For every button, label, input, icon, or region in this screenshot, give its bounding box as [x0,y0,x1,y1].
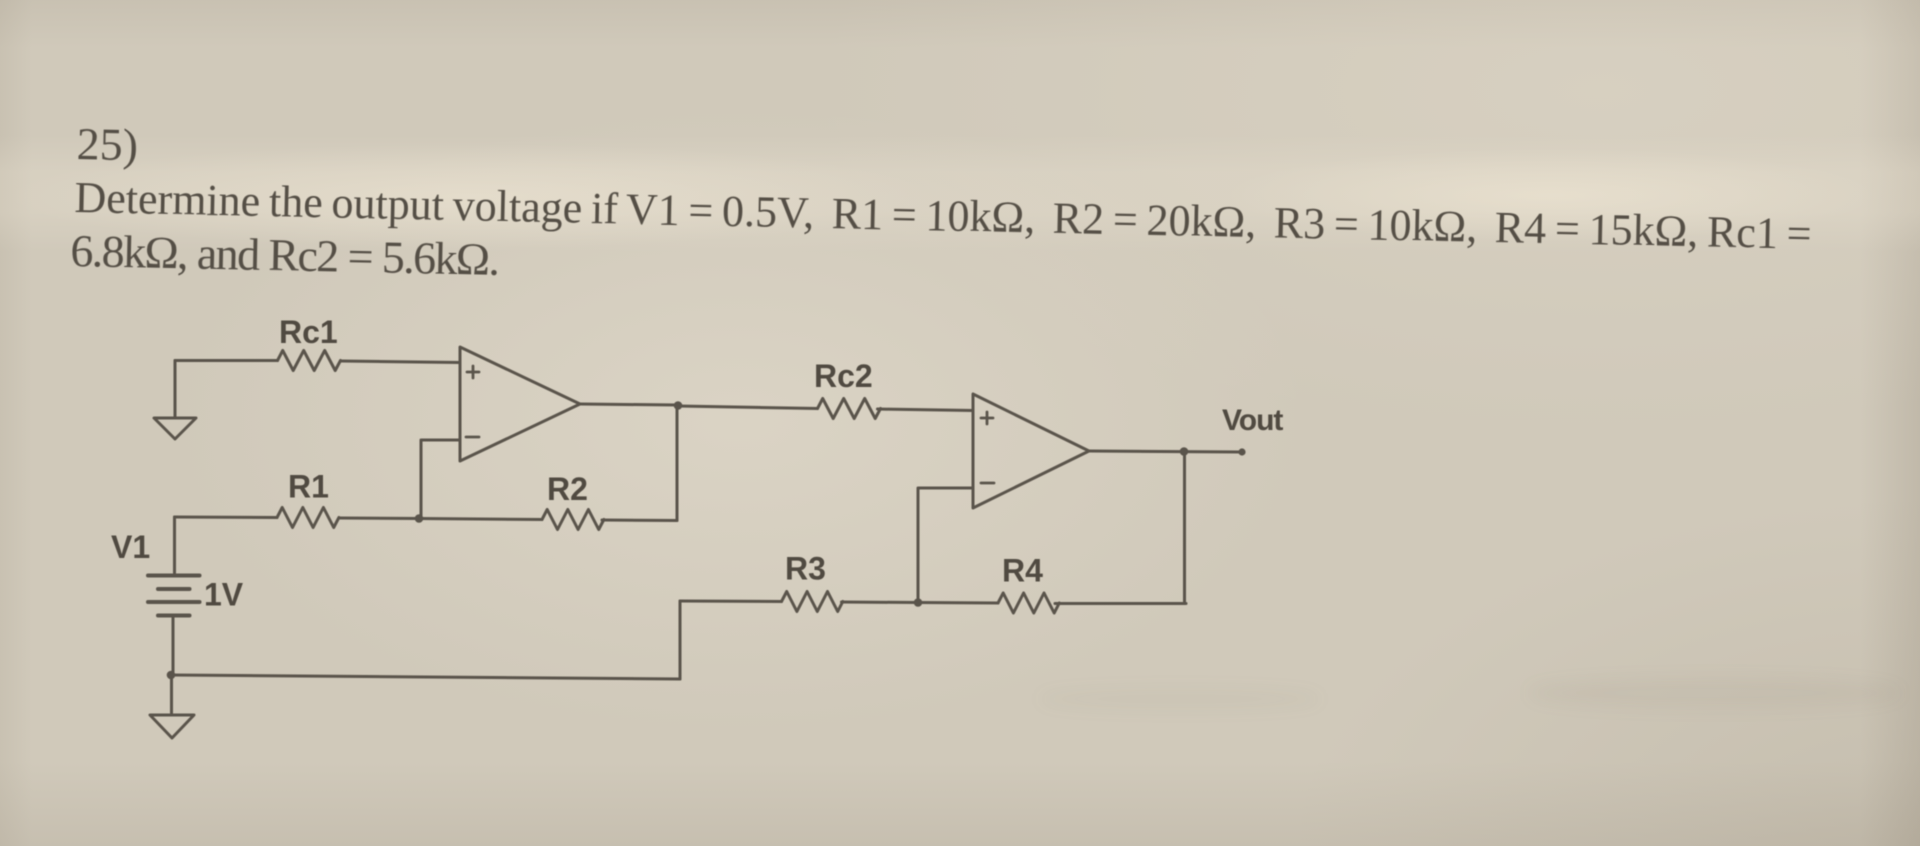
wire ground stem [174,361,177,419]
resistor Rc1 [278,351,341,371]
faint bleed-through smudge mid [1040,688,1320,710]
svg-text:R1: R1 [288,469,329,505]
resistor R3 [782,592,843,612]
wire node C to R4 [918,601,998,605]
svg-text:Rc2: Rc2 [814,358,873,394]
svg-text:V1: V1 [111,529,150,565]
resistor R4 [998,593,1059,613]
battery V1 plate long top [148,574,200,578]
wire top: ground to Rc1 [175,359,278,362]
U2 + pin marker [981,412,993,424]
wire step vertical [679,601,682,679]
wire Rc2 to U2 + input [878,409,974,411]
wire R4 row right segment [1055,602,1186,605]
svg-text:R2: R2 [547,471,588,507]
svg-text:Vout: Vout [1222,404,1283,437]
wire step corner to R3 [680,600,782,604]
wire U2 output to Vout [1089,451,1242,452]
op-amp U2 [973,394,1089,508]
op-amp U1 [460,347,580,461]
svg-text:R3: R3 [785,551,826,587]
node Vout terminal dot [1238,448,1245,455]
wire node B to Rc2 [678,406,818,409]
battery V1 plate long bottom [148,600,200,604]
wire feedback R2 up to node B [676,406,679,521]
faint bleed-through smudge right [1530,678,1900,708]
wire left column V1 top [173,517,176,575]
wire R2 to feedback corner [602,519,677,523]
wire R1 R2 row [175,516,278,520]
resistor R1 [277,508,339,528]
battery V1 plate short bottom [158,614,190,618]
resistor Rc2 [818,399,881,419]
battery V1 plate short [158,587,190,591]
svg-text:1V: 1V [204,577,244,613]
wire R1 to node A [339,517,419,521]
wire Rc1 to U1 + input [341,361,461,363]
U1 - pin marker [466,436,479,439]
wire node E to ground stem [170,675,173,715]
node D junction dot [1180,447,1189,456]
wire feedback vertical from node D [1183,452,1186,604]
wire node A to U1 - input [421,440,460,518]
node B junction dot [674,401,683,410]
U1 + pin marker [467,366,479,378]
wire battery to node E [172,616,175,676]
wire node A to R2 [419,519,542,520]
U2 - pin marker [981,482,994,485]
ground G2 [150,715,194,738]
ground G1 [154,418,196,439]
svg-text:R4: R4 [1002,553,1043,589]
node C junction dot [914,598,923,607]
wire R3 to node C [842,601,919,605]
resistor R2 [542,510,604,530]
svg-text:Rc1: Rc1 [279,314,338,350]
node E junction dot [167,671,176,680]
wire node C to U2 - input [918,488,973,603]
wire U1 output [580,404,678,405]
wire bottom run [171,675,680,679]
node A junction dot [415,514,424,523]
